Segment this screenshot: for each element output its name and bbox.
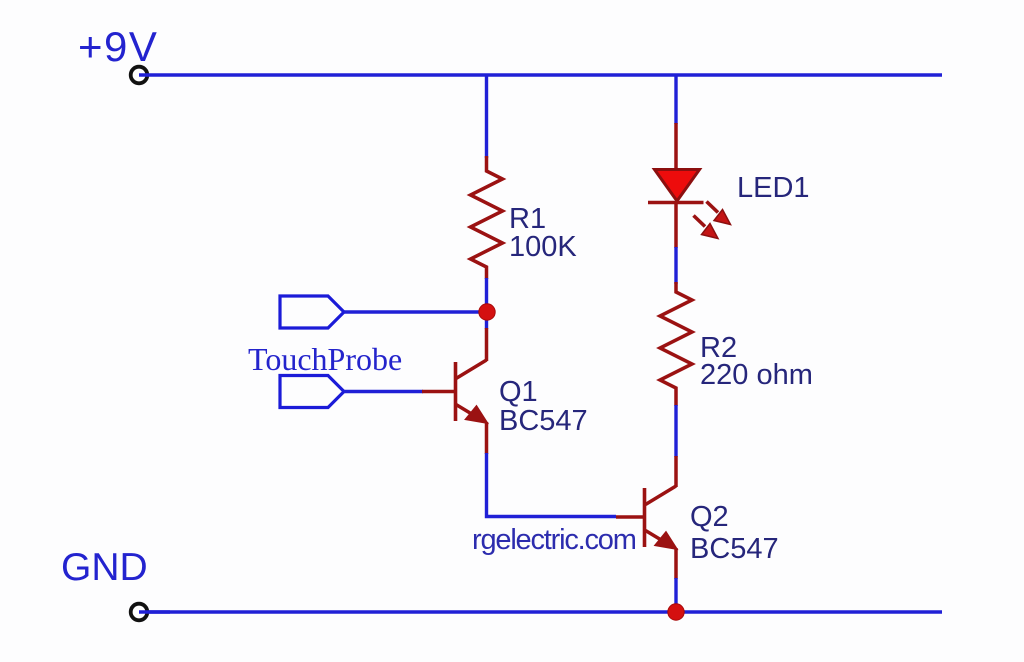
value label R2 220 ohm [700, 332, 813, 391]
wire Q2 emitter to GND rail [674, 578, 677, 612]
svg-text:LED1: LED1 [737, 172, 810, 204]
svg-text:220 ohm: 220 ohm [700, 359, 813, 391]
wire Q1 emitter to Q2 base [487, 453, 617, 517]
wire LED1 to R2 [674, 247, 677, 284]
svg-text:Q2: Q2 [690, 501, 729, 533]
svg-text:+9V: +9V [78, 23, 158, 70]
wire pin1 to node A [344, 310, 487, 313]
svg-text:rgelectric.com: rgelectric.com [472, 524, 636, 556]
transistor Q1 [422, 328, 488, 454]
node GND label [61, 546, 148, 589]
connector pin 2 TouchProbe bottom [280, 376, 344, 408]
label Q2 BC547 [690, 501, 779, 565]
LED LED1 [648, 123, 704, 248]
GND terminal [131, 604, 148, 621]
label TouchProbe [248, 341, 402, 377]
svg-text:100K: 100K [509, 231, 577, 263]
wire R1 to node A [485, 278, 488, 329]
svg-text:TouchProbe: TouchProbe [248, 341, 402, 377]
connector pin 1 TouchProbe top [280, 296, 344, 328]
wire top rail to LED1 [674, 75, 677, 124]
value label R1 100K [509, 203, 577, 263]
wire R2 to Q2 [674, 405, 677, 457]
svg-text:GND: GND [61, 546, 148, 589]
label Q1 BC547 [499, 376, 588, 437]
svg-text:BC547: BC547 [499, 405, 588, 437]
node A junction dot [479, 304, 495, 320]
svg-text:BC547: BC547 [690, 533, 779, 565]
wire +9V top rail [139, 73, 942, 76]
transistor Q2 [616, 456, 678, 579]
wire GND rail over terminal [139, 610, 170, 613]
label LED1 [737, 172, 810, 204]
wire top rail to R1 [485, 75, 488, 158]
node GND junction dot [668, 604, 684, 620]
svg-text:Q1: Q1 [499, 376, 538, 408]
LED1 light arrows [694, 202, 731, 239]
+9V terminal [131, 67, 148, 84]
label rgelectric.com [472, 524, 636, 556]
resistor R2 [660, 282, 692, 406]
wire GND bottom rail [139, 610, 942, 613]
wire pin2 to Q1 base [344, 390, 423, 393]
node +9V label [78, 23, 158, 70]
resistor R1 [471, 156, 503, 279]
